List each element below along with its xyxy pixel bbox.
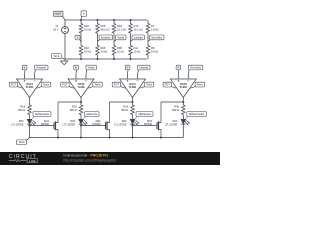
resistor R08 10 kOhm [112, 46, 116, 56]
svg-text:560 Ω: 560 Ω [18, 108, 25, 112]
node dot top branch 2 [97, 19, 99, 21]
flag Vermelho (op-amp input) [187, 70, 190, 74]
ground symbol [64, 59, 66, 61]
svg-text:48.1 kΩ: 48.1 kΩ [101, 28, 110, 32]
svg-text:POT: POT [114, 83, 120, 87]
op-amp OA12 input pin wires [75, 74, 77, 79]
junction dot output node [182, 101, 184, 103]
svg-text:LEDlaranja: LEDlaranja [138, 112, 151, 116]
resistor R04 10 kOhm [79, 46, 83, 56]
bottom ground rail [30, 137, 184, 139]
svg-text:POT: POT [165, 83, 171, 87]
svg-text:Terra: Terra [197, 83, 203, 87]
transistor M03 channel bar [158, 121, 160, 130]
LED emission arrows [83, 122, 86, 125]
svg-text:R03: R03 [84, 24, 89, 28]
svg-text:R06: R06 [174, 105, 179, 109]
svg-text:V1: V1 [55, 24, 59, 28]
svg-text:LEDvermelho: LEDvermelho [189, 112, 205, 116]
svg-text:1.8 kΩ: 1.8 kΩ [151, 28, 159, 32]
footer bar [0, 152, 220, 165]
svg-text:POT: POT [62, 83, 68, 87]
svg-text:LTL-307EE: LTL-307EE [63, 124, 76, 127]
transistor M02 IRF530 gate tap junction [80, 125, 82, 127]
svg-text:10 kΩ: 10 kΩ [84, 28, 91, 32]
node dot bottom branch 4 [130, 58, 132, 60]
ladder branch 5 wire [147, 20, 149, 24]
flag B (inverting ref) [24, 70, 27, 74]
node dot top branch 4 [130, 19, 132, 21]
transistor M03 gate bar [156, 122, 158, 129]
svg-text:B: B [75, 66, 77, 70]
svg-text:Terra: Terra [95, 83, 101, 87]
junction dot LED-rail [132, 137, 134, 139]
transistor M01 drain wire [56, 102, 59, 123]
svg-text:560 Ω: 560 Ω [121, 108, 128, 112]
op-amp OA10 input pin wires [177, 74, 179, 79]
flag Laranja (op-amp input) [137, 70, 140, 74]
svg-text:LTL-307EE: LTL-307EE [165, 124, 178, 127]
svg-text:POT: POT [55, 12, 61, 16]
svg-text:LEDverde: LEDverde [86, 112, 98, 116]
flag POT (V+ supply) [171, 87, 176, 89]
svg-text:Laranja: Laranja [134, 35, 143, 39]
LED D02 LTL-307EE [130, 119, 135, 124]
flag POT (top) [63, 16, 66, 20]
svg-text:LTL-307EE: LTL-307EE [11, 124, 24, 127]
svg-text:POT: POT [11, 83, 17, 87]
svg-text:10 kΩ: 10 kΩ [84, 50, 91, 54]
junction dot output node [80, 101, 82, 103]
LED D01 LTL-307EE [181, 119, 186, 124]
resistor R10 15.1 kΩ [129, 24, 133, 34]
svg-text:15.1 kΩ: 15.1 kΩ [134, 28, 143, 32]
wire source top [64, 20, 66, 27]
svg-text:R16: R16 [20, 105, 25, 109]
svg-text:R11: R11 [134, 46, 139, 50]
transistor M01 gate wire [30, 125, 55, 127]
flag POT (V+ supply) [121, 87, 126, 89]
transistor M02 source wire [107, 130, 110, 138]
svg-text:LAB: LAB [29, 159, 36, 163]
svg-text:TL081: TL081 [26, 85, 34, 89]
ladder branch 4 wire [130, 20, 132, 24]
svg-text:D02: D02 [122, 119, 127, 123]
svg-text:Verde: Verde [117, 35, 124, 39]
op-amp OA13 input pin wires [24, 74, 26, 79]
svg-text:10 kΩ: 10 kΩ [151, 50, 158, 54]
flag Laranja (divider tap) [131, 40, 134, 42]
LED D03 LTL-307EE [79, 119, 84, 124]
resistor R14 560Ohm [131, 105, 135, 115]
resistor R06 560Ohm [182, 105, 186, 115]
svg-text:R09: R09 [117, 24, 122, 28]
callout LEDvermelho [185, 117, 188, 120]
svg-text:R8: R8 [151, 46, 155, 50]
svg-text:R08: R08 [117, 46, 122, 50]
svg-text:IRF530: IRF530 [93, 123, 102, 126]
svg-text:R14: R14 [123, 105, 128, 109]
op-amp OA11 input pin wires [127, 74, 129, 79]
flag Terra (V- supply) [140, 87, 145, 89]
ladder branch 1 wire [80, 20, 82, 24]
resistor R16 560Ohm [28, 105, 32, 115]
svg-text:IRF530: IRF530 [41, 123, 50, 126]
svg-text:B: B [177, 66, 179, 70]
flag Vermelho (divider tap) [148, 40, 151, 42]
svg-text:TL081: TL081 [77, 85, 85, 89]
node dot top branch 1 [80, 19, 82, 21]
svg-text:Terra: Terra [43, 83, 49, 87]
flag POT (V+ supply) [18, 87, 23, 89]
drain to next stage output [58, 101, 81, 103]
LED emission arrows [134, 122, 137, 125]
svg-text:10 kΩ: 10 kΩ [101, 50, 108, 54]
svg-text:braindeadsmail - PROJET01: braindeadsmail - PROJET01 [64, 154, 109, 158]
transistor M02 gate wire [81, 125, 106, 127]
transistor M01 gate bar [53, 122, 55, 129]
svg-text:560 Ω: 560 Ω [70, 108, 77, 112]
svg-text:http://circuitlab.com/c/59hg4/: http://circuitlab.com/c/59hg4/projet01/ [64, 159, 117, 163]
resistor R05 48.1 kΩ [96, 24, 100, 34]
junction dot output node [132, 101, 134, 103]
transistor M02 channel bar [106, 121, 108, 130]
ladder branch 2 wire [97, 20, 99, 24]
transistor M03 gate wire [133, 125, 158, 127]
svg-text:18 V: 18 V [53, 28, 59, 32]
op-amp OA11 triangle body [120, 79, 146, 98]
svg-text:10 kΩ: 10 kΩ [134, 50, 141, 54]
flag B (inverting ref) [75, 70, 78, 74]
svg-text:R04: R04 [84, 46, 89, 50]
resistor R7 1.8 kΩ [146, 24, 150, 34]
svg-text:560 Ω: 560 Ω [172, 108, 179, 112]
output wire [29, 98, 31, 106]
svg-text:Amarelo: Amarelo [36, 65, 46, 69]
flag Terra (source) [61, 58, 65, 59]
LED emission arrows [31, 122, 34, 125]
svg-text:IRF530: IRF530 [144, 123, 153, 126]
svg-text:Vermelho: Vermelho [190, 65, 202, 69]
output wire [80, 98, 82, 106]
svg-text:Vermelho: Vermelho [151, 35, 163, 39]
svg-text:Terra: Terra [19, 140, 25, 144]
flag Amarelo (divider tap) [98, 40, 101, 42]
callout LEDamarelo [32, 117, 35, 120]
svg-text:A: A [83, 12, 85, 16]
svg-text:D04: D04 [19, 119, 24, 123]
node dot bottom branch 1 [80, 58, 82, 60]
transistor M02 gate bar [105, 122, 107, 129]
transistor M02 drain wire [107, 102, 110, 123]
top rail (node A / 18V) [65, 19, 147, 21]
svg-text:Verde: Verde [88, 65, 95, 69]
resistor R06 10 kOhm [96, 46, 100, 56]
flag Amarelo (op-amp input) [34, 70, 37, 74]
flag Terra (V- supply) [88, 87, 93, 89]
resistor R11 10 kOhm [129, 46, 133, 56]
output wire [132, 98, 134, 106]
flag Terra (V- supply) [37, 87, 42, 89]
voltage source V1 18V [62, 27, 69, 34]
callout LEDlaranja [135, 117, 138, 120]
resistor R8 10 kOhm [146, 46, 150, 56]
drain to next stage output [110, 101, 133, 103]
svg-text:Laranja: Laranja [139, 65, 148, 69]
flag B (divider tap) [80, 40, 81, 42]
ladder bottom rail [65, 58, 147, 60]
svg-text:R15: R15 [72, 105, 77, 109]
junction dot source-rail [109, 137, 111, 139]
op-amp OA13 triangle body [17, 79, 43, 98]
ladder branch 3 wire [113, 20, 115, 24]
svg-text:Terra: Terra [146, 83, 152, 87]
flag A (top rail) [80, 16, 83, 20]
output wire [182, 98, 184, 106]
svg-text:D01: D01 [173, 119, 178, 123]
svg-text:TL081: TL081 [180, 85, 188, 89]
transistor M01 source wire [56, 130, 59, 138]
node dot bottom branch 2 [97, 58, 99, 60]
svg-text:R05: R05 [101, 24, 106, 28]
flag B (inverting ref) [127, 70, 130, 74]
svg-text:B: B [24, 66, 26, 70]
op-amp OA10 triangle body [170, 79, 196, 98]
junction dot LED-rail [80, 137, 82, 139]
drain to next stage output [161, 101, 183, 103]
junction dot source-rail [160, 137, 162, 139]
svg-text:R06: R06 [101, 46, 106, 50]
resistor R03 10 kΩ [79, 24, 83, 34]
LED emission arrows [185, 122, 188, 125]
transistor M03 drain wire [159, 102, 162, 123]
svg-text:Amarelo: Amarelo [101, 35, 111, 39]
transistor M01 channel bar [55, 121, 57, 130]
flag Verde (op-amp input) [85, 70, 88, 74]
junction dot source-rail [57, 137, 59, 139]
wire source bottom [64, 34, 66, 60]
resistor R09 15.1 kΩ [112, 24, 116, 34]
svg-text:LTL-307EE: LTL-307EE [114, 124, 127, 127]
transistor M01 IRF530 gate tap junction [29, 125, 31, 127]
callout LEDverde [83, 117, 86, 120]
flag B (inverting ref) [177, 70, 180, 74]
resistor R15 560Ohm [79, 105, 83, 115]
flag POT (V+ supply) [69, 87, 74, 89]
flag Terra (V- supply) [191, 87, 196, 89]
node dot top branch 3 [113, 19, 115, 21]
svg-text:B: B [77, 36, 79, 40]
svg-text:LEDamarelo: LEDamarelo [35, 112, 50, 116]
svg-text:B: B [127, 66, 129, 70]
svg-text:D03: D03 [70, 119, 75, 123]
svg-text:R7: R7 [151, 24, 155, 28]
flag Verde (divider tap) [114, 40, 117, 42]
op-amp OA12 triangle body [68, 79, 94, 98]
flag Terra (bottom rail) [26, 138, 29, 141]
LED D04 LTL-307EE [27, 119, 32, 124]
svg-text:Terra: Terra [54, 55, 60, 58]
svg-text:TL081: TL081 [129, 85, 137, 89]
node dot bottom branch 3 [113, 58, 115, 60]
transistor M03 IRF530 gate tap junction [132, 125, 134, 127]
svg-text:10 kΩ: 10 kΩ [117, 50, 124, 54]
svg-text:R10: R10 [134, 24, 139, 28]
svg-text:15.1 kΩ: 15.1 kΩ [117, 28, 126, 32]
transistor M03 source wire [159, 130, 162, 138]
